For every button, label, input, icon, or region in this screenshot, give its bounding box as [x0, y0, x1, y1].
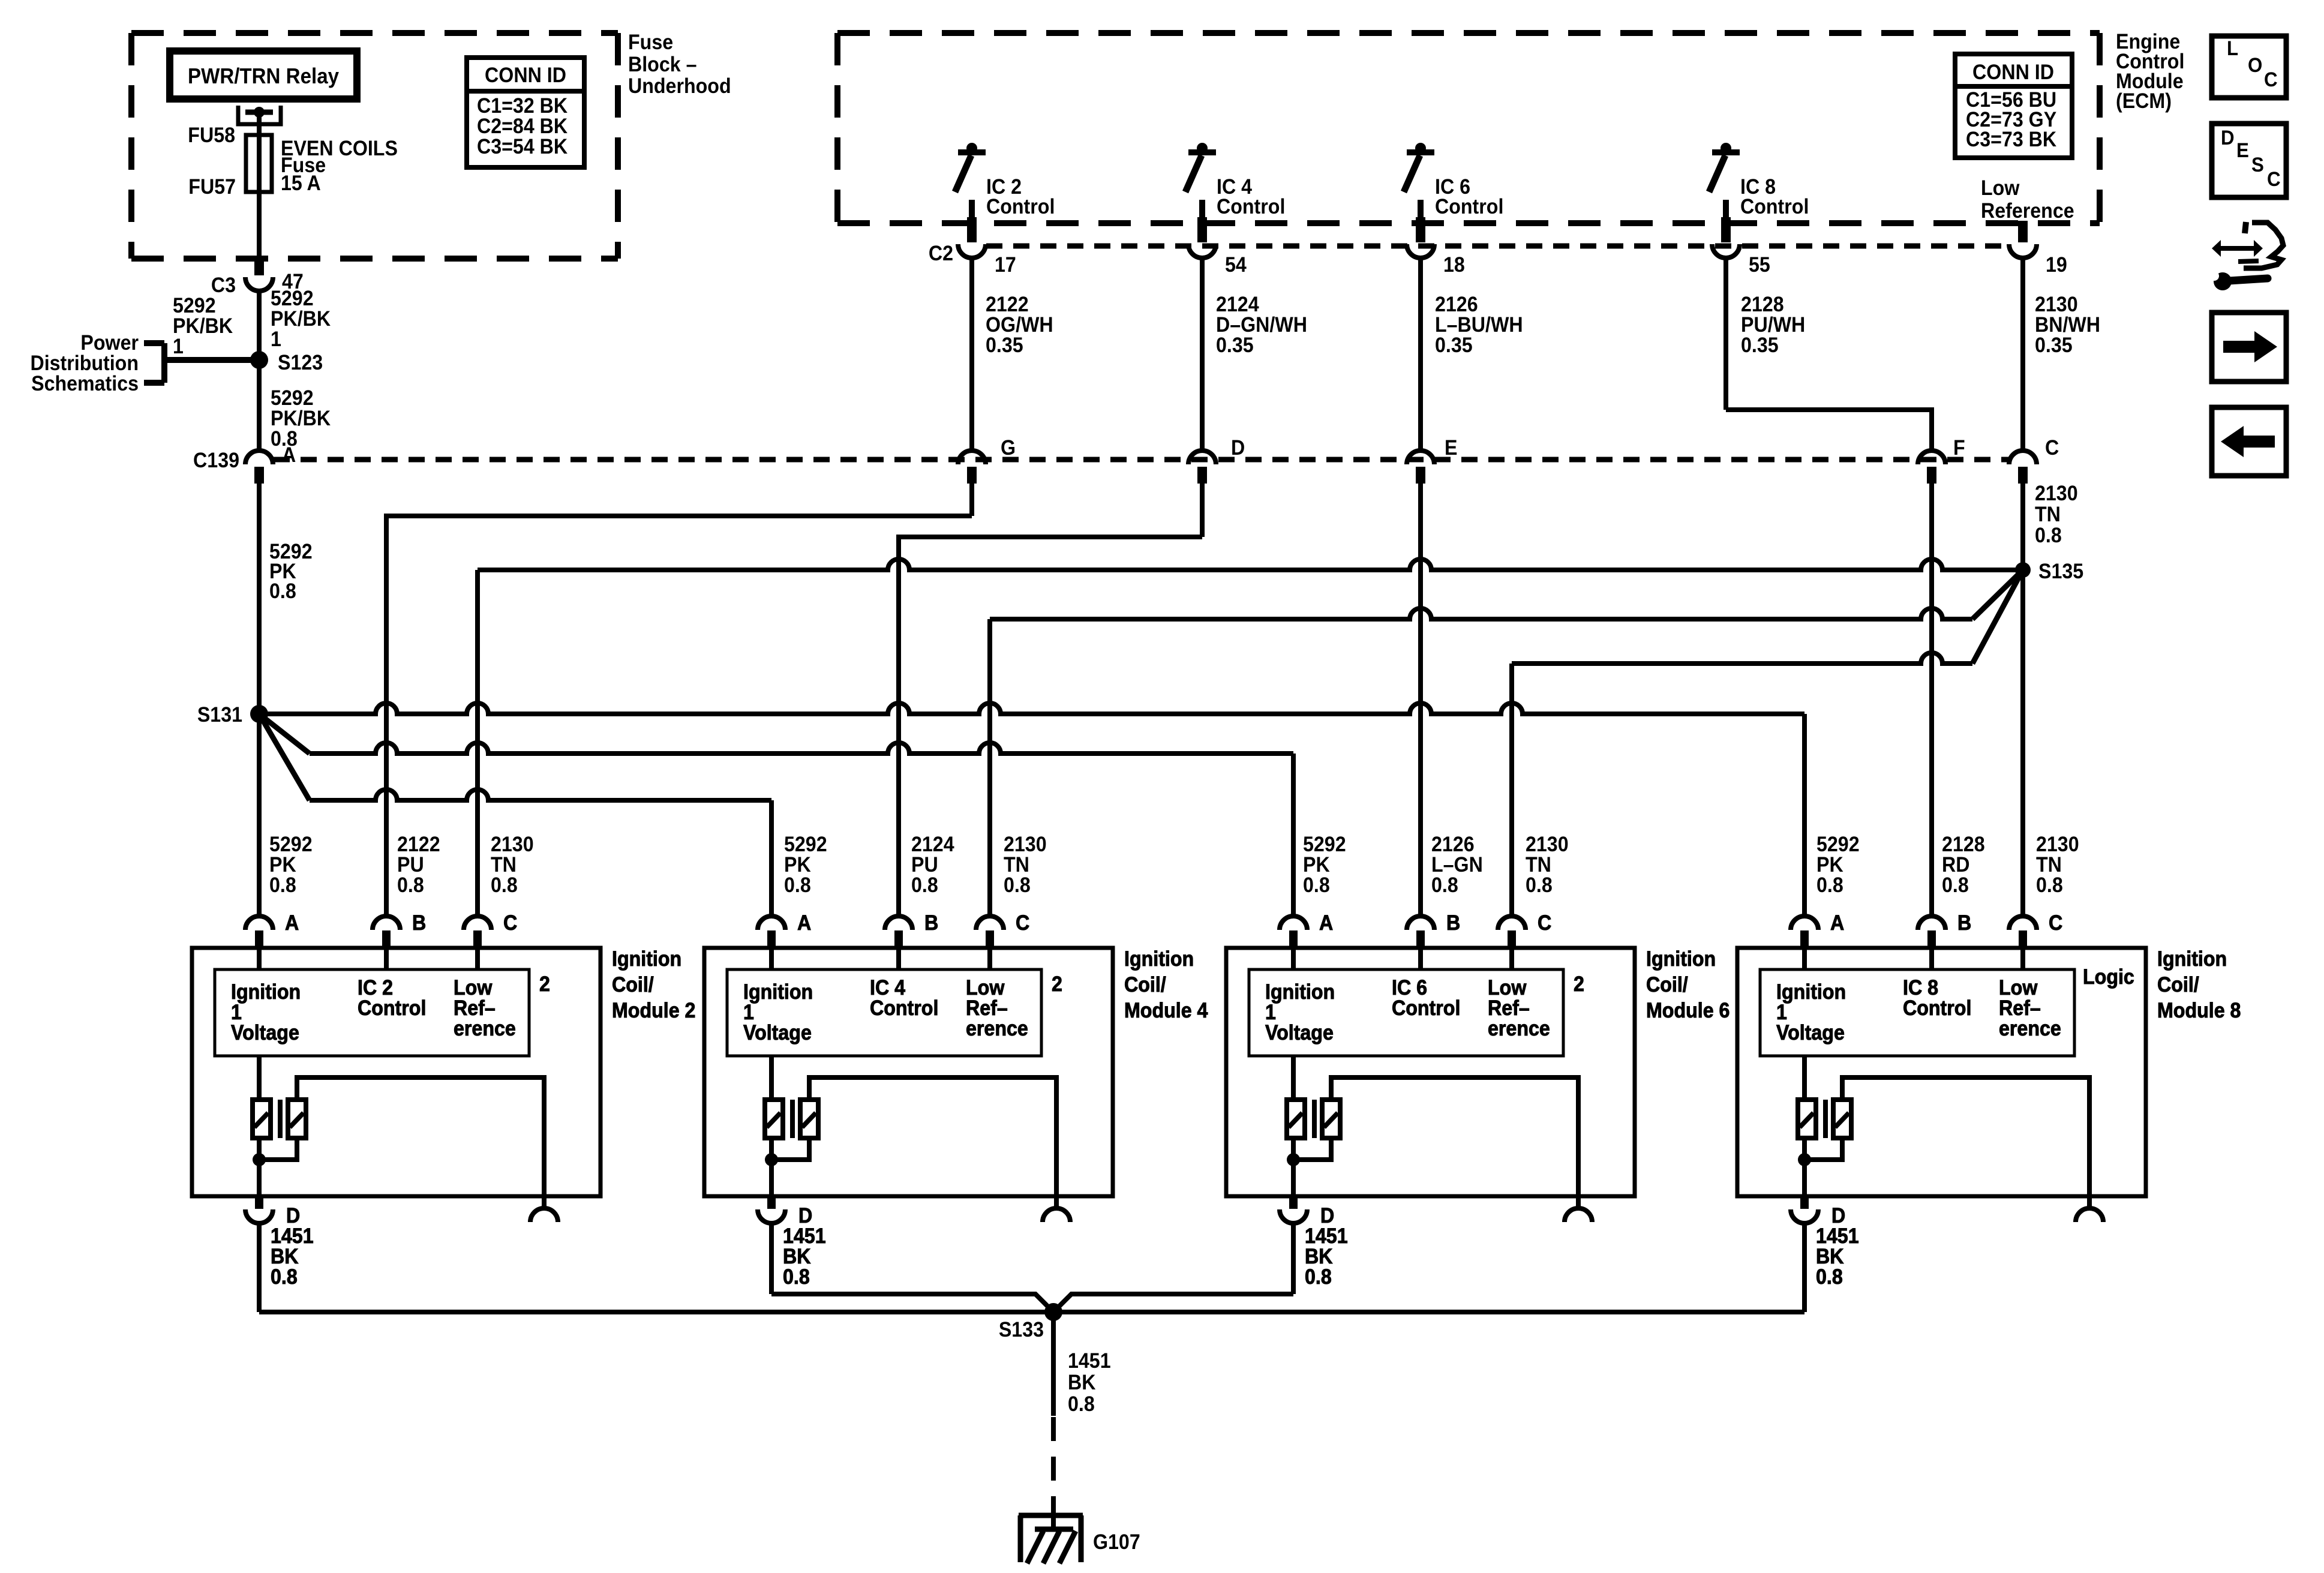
svg-text:S: S	[2251, 153, 2264, 176]
svg-text:L–GN: L–GN	[1431, 854, 1483, 877]
svg-text:Power: Power	[80, 332, 139, 355]
svg-text:Coil/: Coil/	[612, 974, 654, 997]
svg-text:Ignition: Ignition	[2157, 948, 2227, 971]
svg-text:2130: 2130	[1004, 833, 1047, 857]
svg-text:Coil/: Coil/	[1124, 974, 1166, 997]
svg-text:0.8: 0.8	[491, 874, 518, 897]
svg-text:Control: Control	[1392, 997, 1460, 1020]
svg-text:B: B	[1446, 912, 1460, 935]
svg-text:Module 6: Module 6	[1646, 999, 1730, 1023]
svg-text:IC 4: IC 4	[870, 977, 905, 1000]
svg-text:1451: 1451	[783, 1225, 826, 1248]
svg-text:C2: C2	[929, 242, 953, 266]
svg-text:C139: C139	[193, 449, 239, 473]
svg-text:0.8: 0.8	[783, 1266, 810, 1289]
svg-text:PK: PK	[1816, 854, 1843, 877]
svg-text:0.8: 0.8	[2035, 524, 2062, 548]
svg-text:5292: 5292	[1816, 833, 1860, 857]
svg-text:S131: S131	[197, 704, 242, 727]
svg-text:B: B	[412, 912, 426, 935]
svg-text:2: 2	[539, 973, 550, 996]
svg-text:2130: 2130	[2035, 482, 2078, 506]
svg-text:0.8: 0.8	[1942, 874, 1969, 897]
svg-text:Ignition: Ignition	[612, 948, 681, 971]
svg-text:L–BU/WH: L–BU/WH	[1435, 314, 1523, 337]
svg-text:Coil/: Coil/	[2157, 974, 2199, 997]
svg-text:S133: S133	[999, 1319, 1044, 1342]
svg-text:Control: Control	[1903, 997, 1971, 1020]
svg-text:Fuse: Fuse	[628, 31, 673, 55]
svg-text:2: 2	[1574, 973, 1584, 996]
svg-text:Control: Control	[1435, 196, 1503, 219]
svg-text:Low: Low	[454, 977, 493, 1000]
svg-text:Low: Low	[1981, 177, 2020, 200]
svg-text:IC 2: IC 2	[358, 977, 393, 1000]
svg-text:FU57: FU57	[188, 176, 236, 199]
svg-text:A: A	[285, 912, 299, 935]
svg-text:BK: BK	[1816, 1245, 1843, 1269]
svg-text:Ref–: Ref–	[966, 997, 1008, 1020]
svg-text:D: D	[286, 1205, 300, 1228]
svg-text:1: 1	[173, 335, 184, 359]
svg-text:C: C	[2045, 437, 2059, 460]
svg-text:Ignition: Ignition	[1124, 948, 1194, 971]
svg-text:C: C	[2267, 167, 2281, 191]
svg-text:Control: Control	[1740, 196, 1809, 219]
svg-text:2124: 2124	[911, 833, 954, 857]
svg-text:1: 1	[1776, 1001, 1787, 1025]
svg-text:5292: 5292	[271, 287, 314, 311]
svg-text:5292: 5292	[784, 833, 827, 857]
svg-text:1451: 1451	[1068, 1350, 1111, 1373]
svg-text:erence: erence	[1488, 1017, 1550, 1041]
svg-text:CONN ID: CONN ID	[485, 64, 566, 88]
svg-text:erence: erence	[1999, 1017, 2061, 1041]
svg-text:C3=73 BK: C3=73 BK	[1966, 128, 2056, 152]
svg-text:D: D	[1320, 1205, 1334, 1228]
svg-text:Ignition: Ignition	[231, 981, 301, 1004]
svg-text:5292: 5292	[269, 833, 313, 857]
svg-text:PK/BK: PK/BK	[173, 315, 233, 338]
svg-text:CONN ID: CONN ID	[1972, 61, 2054, 85]
svg-text:PU/WH: PU/WH	[1741, 314, 1805, 337]
svg-text:B: B	[1957, 912, 1971, 935]
svg-text:Control: Control	[358, 997, 426, 1020]
svg-text:BK: BK	[1068, 1371, 1095, 1395]
svg-text:erence: erence	[966, 1017, 1028, 1041]
svg-text:0.8: 0.8	[1305, 1266, 1332, 1289]
svg-text:5292: 5292	[271, 387, 314, 410]
svg-text:0.8: 0.8	[1816, 874, 1843, 897]
svg-text:PK: PK	[784, 854, 811, 877]
svg-text:0.8: 0.8	[1068, 1393, 1095, 1416]
svg-text:A: A	[1830, 912, 1844, 935]
svg-text:2130: 2130	[2035, 293, 2078, 317]
svg-text:O: O	[2248, 53, 2262, 77]
svg-text:L: L	[2227, 37, 2238, 60]
svg-text:D: D	[798, 1205, 812, 1228]
svg-text:2128: 2128	[1741, 293, 1784, 317]
svg-text:0.35: 0.35	[1435, 334, 1473, 358]
svg-text:PK: PK	[1303, 854, 1330, 877]
svg-text:2130: 2130	[2036, 833, 2079, 857]
svg-text:PU: PU	[397, 854, 424, 877]
svg-text:Low: Low	[966, 977, 1005, 1000]
svg-text:2122: 2122	[397, 833, 440, 857]
svg-text:0.8: 0.8	[784, 874, 811, 897]
svg-text:2130: 2130	[491, 833, 534, 857]
svg-text:BK: BK	[271, 1245, 298, 1269]
svg-text:E: E	[1445, 437, 1457, 460]
svg-text:Low: Low	[1999, 977, 2038, 1000]
svg-text:0.8: 0.8	[911, 874, 938, 897]
svg-text:0.8: 0.8	[1004, 874, 1031, 897]
svg-text:Voltage: Voltage	[1265, 1022, 1334, 1045]
svg-text:Underhood: Underhood	[628, 75, 731, 98]
svg-text:2130: 2130	[1526, 833, 1569, 857]
svg-text:Schematics: Schematics	[31, 373, 139, 396]
svg-text:BK: BK	[1305, 1245, 1332, 1269]
svg-text:PWR/TRN Relay: PWR/TRN Relay	[188, 65, 340, 89]
svg-text:RD: RD	[1942, 854, 1969, 877]
svg-text:(ECM): (ECM)	[2116, 90, 2172, 113]
svg-text:erence: erence	[454, 1017, 516, 1041]
svg-text:FU58: FU58	[188, 124, 235, 148]
svg-text:Distribution: Distribution	[30, 352, 139, 376]
svg-text:C3=54 BK: C3=54 BK	[477, 136, 568, 159]
svg-text:0.8: 0.8	[1431, 874, 1458, 897]
svg-text:Ignition: Ignition	[743, 981, 813, 1004]
svg-text:Module 4: Module 4	[1124, 999, 1208, 1023]
svg-text:A: A	[282, 444, 296, 467]
svg-text:D–GN/WH: D–GN/WH	[1216, 314, 1307, 337]
svg-text:PK: PK	[269, 854, 296, 877]
svg-text:Ignition: Ignition	[1646, 948, 1716, 971]
svg-text:1: 1	[231, 1001, 242, 1025]
svg-text:D: D	[1231, 437, 1245, 460]
svg-text:0.8: 0.8	[2036, 874, 2063, 897]
svg-text:17: 17	[995, 254, 1016, 277]
svg-text:Voltage: Voltage	[1776, 1022, 1845, 1045]
svg-text:G: G	[1001, 437, 1016, 460]
svg-text:18: 18	[1443, 254, 1465, 277]
svg-text:Logic: Logic	[2083, 966, 2134, 989]
svg-text:1451: 1451	[1816, 1225, 1859, 1248]
svg-text:C: C	[1538, 912, 1551, 935]
svg-text:55: 55	[1749, 254, 1770, 277]
svg-text:D: D	[2221, 126, 2235, 149]
svg-text:2126: 2126	[1431, 833, 1475, 857]
svg-text:Ignition: Ignition	[1776, 981, 1846, 1004]
svg-text:Control: Control	[986, 196, 1055, 219]
svg-text:Block –: Block –	[628, 53, 696, 77]
svg-text:2122: 2122	[986, 293, 1029, 317]
svg-text:0.8: 0.8	[269, 580, 296, 604]
svg-text:Ref–: Ref–	[1999, 997, 2041, 1020]
svg-text:PK/BK: PK/BK	[271, 308, 331, 331]
svg-text:IC 6: IC 6	[1392, 977, 1427, 1000]
svg-text:0.8: 0.8	[271, 1266, 298, 1289]
svg-text:5292: 5292	[1303, 833, 1346, 857]
svg-text:TN: TN	[2035, 503, 2061, 527]
svg-text:A: A	[1319, 912, 1333, 935]
svg-text:0.8: 0.8	[1816, 1266, 1843, 1289]
svg-text:Module 2: Module 2	[612, 999, 695, 1023]
svg-text:PU: PU	[911, 854, 938, 877]
svg-text:C2=84 BK: C2=84 BK	[477, 115, 568, 139]
svg-text:Coil/: Coil/	[1646, 974, 1688, 997]
svg-text:C: C	[2264, 68, 2278, 91]
svg-text:Ref–: Ref–	[1488, 997, 1530, 1020]
svg-text:S123: S123	[278, 352, 323, 375]
svg-text:19: 19	[2046, 254, 2067, 277]
svg-text:C: C	[1016, 912, 1029, 935]
svg-text:2128: 2128	[1942, 833, 1985, 857]
svg-text:TN: TN	[1004, 854, 1029, 877]
svg-text:OG/WH: OG/WH	[986, 314, 1053, 337]
svg-text:0.35: 0.35	[986, 334, 1023, 358]
svg-text:F: F	[1953, 437, 1965, 460]
svg-text:G107: G107	[1093, 1531, 1140, 1554]
svg-text:S135: S135	[2038, 560, 2083, 584]
svg-text:5292: 5292	[173, 295, 216, 318]
svg-text:1: 1	[271, 328, 281, 352]
svg-text:54: 54	[1225, 254, 1247, 277]
svg-text:1451: 1451	[271, 1225, 314, 1248]
svg-text:0.8: 0.8	[1526, 874, 1553, 897]
svg-text:C: C	[2049, 912, 2062, 935]
svg-text:2126: 2126	[1435, 293, 1478, 317]
svg-text:2: 2	[1052, 973, 1062, 996]
svg-text:15 A: 15 A	[281, 172, 321, 196]
svg-text:0.35: 0.35	[1741, 334, 1779, 358]
svg-text:TN: TN	[1526, 854, 1551, 877]
svg-text:E: E	[2236, 139, 2249, 162]
svg-text:1451: 1451	[1305, 1225, 1348, 1248]
svg-text:Module 8: Module 8	[2157, 999, 2241, 1023]
svg-text:1: 1	[1265, 1001, 1276, 1025]
svg-text:A: A	[797, 912, 811, 935]
svg-text:IC 8: IC 8	[1903, 977, 1938, 1000]
svg-text:Control: Control	[1217, 196, 1285, 219]
svg-text:0.35: 0.35	[1216, 334, 1254, 358]
svg-text:PK/BK: PK/BK	[271, 407, 331, 431]
svg-text:TN: TN	[2036, 854, 2062, 877]
svg-text:Ignition: Ignition	[1265, 981, 1335, 1004]
svg-text:Voltage: Voltage	[743, 1022, 812, 1045]
svg-text:Ref–: Ref–	[454, 997, 496, 1020]
svg-text:1: 1	[743, 1001, 754, 1025]
svg-text:Reference: Reference	[1981, 200, 2074, 223]
svg-text:0.8: 0.8	[397, 874, 424, 897]
svg-text:BN/WH: BN/WH	[2035, 314, 2100, 337]
svg-text:D: D	[1831, 1205, 1845, 1228]
svg-text:TN: TN	[491, 854, 517, 877]
svg-text:C1=32 BK: C1=32 BK	[477, 95, 568, 118]
svg-text:Voltage: Voltage	[231, 1022, 299, 1045]
svg-text:0.35: 0.35	[2035, 334, 2073, 358]
svg-text:BK: BK	[783, 1245, 810, 1269]
svg-text:Low: Low	[1488, 977, 1527, 1000]
svg-text:Control: Control	[870, 997, 938, 1020]
svg-text:C: C	[503, 912, 517, 935]
svg-text:0.8: 0.8	[269, 874, 296, 897]
svg-text:B: B	[924, 912, 938, 935]
svg-text:C3: C3	[211, 274, 236, 298]
svg-text:0.8: 0.8	[1303, 874, 1330, 897]
svg-text:2124: 2124	[1216, 293, 1259, 317]
